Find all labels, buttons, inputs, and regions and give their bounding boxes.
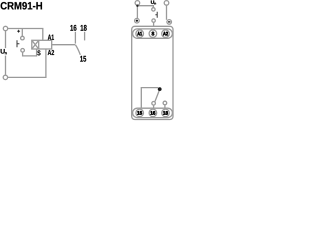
wire top rail bbox=[8, 29, 43, 41]
terminal A2 bbox=[162, 30, 170, 38]
contact point 16 bbox=[152, 102, 156, 106]
terminal A1 bbox=[136, 30, 144, 38]
wire contact 16 bbox=[74, 32, 76, 44]
wire button drop bbox=[21, 29, 23, 37]
terminal 16 bbox=[149, 109, 157, 117]
label A1 bbox=[48, 35, 54, 40]
wire junction to button bbox=[137, 6, 153, 8]
contact pivot dot bbox=[158, 87, 162, 91]
terminal strip bottom bbox=[133, 108, 173, 117]
minus symbol stroke bbox=[168, 21, 170, 23]
wire right supply down bbox=[166, 5, 168, 20]
title CRM91-H bbox=[1, 2, 42, 10]
supply terminal top-left bbox=[3, 26, 7, 30]
label S bbox=[37, 50, 40, 55]
wire box to contact bbox=[52, 44, 75, 46]
coil X symbol bbox=[32, 40, 39, 49]
wire bottom rail to A2 bbox=[8, 49, 46, 77]
coil cell divider bbox=[38, 40, 40, 49]
label 15 bbox=[80, 56, 86, 62]
pushbutton S contact bottom bbox=[21, 49, 25, 53]
junction dot bbox=[136, 5, 138, 7]
supply terminal left bbox=[135, 1, 140, 6]
label 18 bbox=[81, 25, 87, 31]
supply terminal right bbox=[164, 1, 169, 6]
label 16 bbox=[70, 25, 76, 31]
supply terminal bottom-left bbox=[3, 75, 7, 79]
terminal 15 bbox=[136, 109, 144, 117]
terminal strip top bbox=[133, 29, 173, 38]
pushbutton actuator bbox=[155, 12, 157, 18]
label Un bbox=[1, 49, 5, 54]
terminal row 15 16 18 bbox=[133, 108, 173, 117]
terminal 18 bbox=[162, 109, 170, 117]
terminal row A1 S A2 bbox=[133, 29, 173, 38]
plus symbol strokes bbox=[136, 20, 138, 22]
stub 18 bbox=[164, 105, 166, 108]
wire left vertical Un lower bbox=[5, 56, 7, 76]
relay coil box K1 bbox=[32, 40, 52, 49]
wire left vertical Un upper bbox=[5, 31, 7, 48]
minus symbol circle bbox=[167, 20, 172, 25]
plus symbol circle bbox=[135, 18, 140, 23]
pushbutton top contact bbox=[152, 8, 155, 11]
terminal S bbox=[149, 30, 157, 38]
label Un right bbox=[151, 1, 154, 4]
label A2 bbox=[48, 50, 54, 55]
contact arm bbox=[155, 91, 159, 102]
wire button to S bbox=[153, 22, 155, 26]
label + polarity bbox=[17, 30, 20, 33]
stub 16 bbox=[153, 105, 155, 108]
pushbutton actuator bbox=[17, 40, 19, 47]
wire left supply down bbox=[136, 5, 138, 18]
pushbutton S contact top bbox=[21, 36, 25, 40]
contact point 18 bbox=[163, 101, 167, 105]
contact arm to 15 bbox=[75, 45, 80, 55]
output contact drawing bbox=[141, 88, 166, 109]
wire contact 18 bbox=[84, 32, 86, 41]
wire 15 common bbox=[141, 88, 158, 109]
pushbutton bottom contact bbox=[152, 19, 155, 22]
device body outline bbox=[132, 26, 173, 119]
wire button to S terminal bbox=[23, 49, 37, 56]
